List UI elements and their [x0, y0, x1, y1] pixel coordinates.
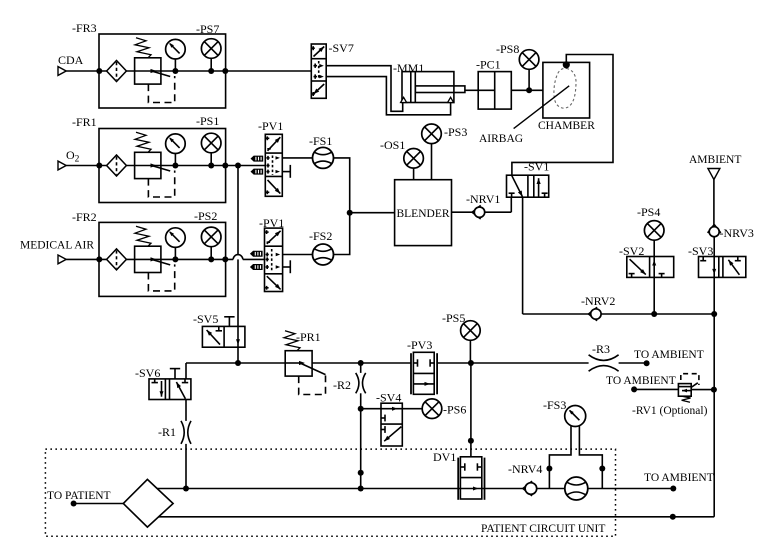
node patient end	[71, 501, 77, 507]
node chamber top port	[563, 61, 570, 68]
label -PR1	[296, 330, 321, 344]
node FR3 gauge tap	[172, 68, 178, 74]
patient flow sensor	[565, 477, 588, 500]
label -PV1 upper	[258, 119, 283, 133]
label -PS5	[442, 311, 465, 325]
label TO AMBIENT lower	[644, 472, 714, 484]
wire SV6 to R1	[185, 400, 187, 421]
wire R3 to ambient	[619, 362, 647, 364]
label -SV7	[329, 41, 354, 55]
wire PV3 out	[437, 362, 471, 364]
pressure switch PS3	[422, 124, 442, 180]
wire FS1 to junction	[334, 158, 350, 255]
label -FS1	[309, 134, 332, 148]
label -PV3	[407, 338, 432, 352]
wire O2 branch down to SV5	[237, 166, 239, 348]
pressure switch PS2	[201, 227, 221, 259]
svg-text:-RV1 (Optional): -RV1 (Optional)	[632, 405, 708, 417]
wire SV4 to PS6	[402, 408, 422, 410]
svg-text:-PS4: -PS4	[637, 205, 660, 219]
label AMBIENT	[689, 154, 741, 166]
wire SV5 down	[237, 347, 239, 363]
node PS2 tap	[208, 256, 214, 262]
wire PC1 to chamber	[511, 89, 543, 91]
node R3 ambient end	[644, 360, 650, 366]
filter-regulator unit FR3 enclosure	[99, 34, 226, 108]
label -PS1	[196, 114, 219, 128]
wire blender outlet	[452, 211, 512, 213]
wire patient stub	[74, 503, 124, 505]
label -NRV2	[581, 294, 615, 308]
filter of FR1	[107, 155, 127, 176]
valve SV3	[699, 257, 746, 278]
svg-text:CHAMBER: CHAMBER	[538, 120, 595, 132]
node FR1 inlet	[96, 163, 102, 169]
valve DV1	[458, 457, 484, 500]
filter of FR3	[107, 61, 127, 82]
wire blender inlet	[350, 212, 395, 214]
svg-text:-FR3: -FR3	[72, 21, 97, 35]
pressure gauge of FR3	[166, 39, 186, 71]
label -SV4	[376, 391, 401, 405]
check valve NRV2	[589, 307, 602, 321]
filter of FR2	[107, 249, 127, 270]
svg-text:-NRV1: -NRV1	[466, 192, 500, 206]
wire FS3 stems	[549, 426, 602, 489]
wire O2 inlet	[66, 165, 106, 167]
wire R2 lower	[360, 393, 362, 488]
node PS1 tap	[208, 163, 214, 169]
valve PV3	[411, 352, 437, 394]
svg-text:-SV4: -SV4	[376, 391, 401, 405]
svg-text:MEDICAL AIR: MEDICAL AIR	[20, 240, 94, 252]
label -PS4	[637, 205, 660, 219]
wire SV1 inlet riser	[510, 197, 512, 212]
node R2 patient junction	[358, 486, 364, 492]
svg-text:-PV1: -PV1	[258, 119, 283, 133]
node PS7 tap	[208, 68, 214, 74]
label -SV2	[619, 244, 644, 258]
label TO AMBIENT mid	[606, 375, 676, 387]
label -PS6	[443, 403, 466, 417]
wire medical-air hop	[233, 255, 243, 260]
pilot PV1l b	[250, 264, 263, 270]
label -R2	[333, 378, 351, 392]
wire R1 to patient line	[185, 444, 187, 489]
label -NRV1	[466, 192, 500, 206]
svg-text:-FS2: -FS2	[309, 229, 332, 243]
label -SV6	[135, 366, 160, 380]
wire RV1 left	[634, 388, 678, 390]
node SV4 junction	[358, 406, 364, 412]
label CDA	[58, 53, 84, 67]
node FR1 outlet	[222, 163, 228, 169]
wire inspiratory line	[157, 488, 673, 490]
pilot PV1u b	[251, 169, 264, 175]
wire PV1l to FS2	[283, 254, 313, 256]
node R2 mid dot	[358, 470, 364, 476]
node SV2 drain junction	[651, 311, 657, 317]
label -NRV3	[720, 226, 754, 240]
label -FR3	[72, 21, 97, 35]
label -FS2	[309, 229, 332, 243]
pressure switch PS6	[422, 399, 442, 419]
label -PV1 lower	[259, 216, 284, 230]
wire R2 upper	[360, 363, 362, 373]
svg-text:-R2: -R2	[333, 378, 351, 392]
label -FR2	[72, 210, 97, 224]
svg-text:-MM1: -MM1	[393, 61, 424, 75]
node RV1 ambient junction	[711, 387, 717, 393]
label -FR1	[72, 115, 97, 129]
svg-text:-PS5: -PS5	[442, 311, 465, 325]
pressure gauge of FR2	[166, 228, 186, 260]
filter-regulator unit FR1 enclosure	[99, 129, 226, 203]
label BLENDER	[396, 208, 449, 220]
ambient triangle	[708, 169, 720, 180]
label AIRBAG	[479, 133, 523, 145]
wire FR3 internal	[126, 70, 311, 72]
inlet port MEDICAL AIR	[58, 255, 66, 264]
node PS8 tap	[526, 87, 532, 93]
node ambient line junction	[711, 311, 717, 317]
label -PS2	[194, 209, 217, 223]
restrictor R1	[181, 421, 191, 444]
wire ambient trunk lower	[713, 390, 715, 517]
flow sensor FS1	[313, 147, 334, 168]
oxygen sensor OS1	[404, 149, 424, 180]
wire FR2 internal	[126, 258, 265, 260]
pressure switch PS4	[644, 221, 664, 257]
inlet port O2	[58, 161, 66, 170]
node RV1 vent end	[631, 386, 637, 392]
svg-text:-PS8: -PS8	[496, 42, 519, 56]
svg-text:-OS1: -OS1	[380, 138, 405, 152]
svg-text:-SV7: -SV7	[329, 41, 354, 55]
svg-text:O2: O2	[66, 148, 80, 165]
wire SV4 feed	[361, 408, 381, 410]
valve SV4	[381, 403, 402, 446]
restrictor R2	[356, 373, 366, 393]
port stub PV1l	[283, 260, 291, 273]
pressure gauge of FR1	[166, 134, 186, 166]
node FS3 left dot	[546, 466, 552, 472]
valve SV5	[202, 317, 245, 347]
svg-text:TO PATIENT: TO PATIENT	[47, 490, 111, 502]
pressure switch PS5	[461, 321, 481, 363]
wire SV6 drop	[185, 363, 187, 379]
check valve NRV1	[472, 205, 485, 219]
wire MEDICAL AIR inlet	[66, 258, 106, 260]
inlet port CDA	[58, 67, 66, 76]
svg-text:-PV3: -PV3	[407, 338, 432, 352]
wire SV7 out B	[326, 77, 450, 115]
label TO AMBIENT upper	[634, 349, 704, 361]
svg-text:-SV1: -SV1	[524, 160, 549, 174]
svg-text:DV1: DV1	[433, 450, 456, 464]
node FR2 gauge tap	[172, 256, 178, 262]
node FR3 outlet	[222, 68, 228, 74]
pressure switch PS8	[519, 50, 539, 91]
svg-text:TO AMBIENT: TO AMBIENT	[634, 349, 704, 361]
label -PS7	[196, 22, 219, 36]
pressure switch PS1	[201, 133, 221, 165]
valve PV1 lower	[265, 228, 283, 291]
svg-text:-NRV2: -NRV2	[581, 294, 615, 308]
svg-text:-SV5: -SV5	[193, 312, 218, 326]
svg-text:-R3: -R3	[592, 342, 610, 356]
label -NRV4	[508, 462, 542, 476]
patient wye diamond	[123, 479, 173, 527]
svg-text:TO AMBIENT: TO AMBIENT	[606, 375, 676, 387]
node DV1 feed dot	[468, 438, 474, 444]
pressure switch PS7	[201, 39, 221, 71]
patient circuit unit boundary	[45, 449, 615, 536]
label -OS1	[380, 138, 405, 152]
wire SV3 down	[713, 277, 715, 314]
wire SV2 down	[653, 277, 655, 314]
pressure regulator of FR3	[135, 38, 175, 103]
svg-text:-SV6: -SV6	[135, 366, 160, 380]
svg-text:-PR1: -PR1	[296, 330, 321, 344]
relief valve RV1	[678, 374, 699, 403]
svg-text:PATIENT CIRCUIT UNIT: PATIENT CIRCUIT UNIT	[481, 523, 605, 535]
wire NRV2 line	[523, 313, 715, 315]
wire ambient trunk down	[713, 314, 715, 390]
svg-text:-FR1: -FR1	[72, 115, 97, 129]
label -RV1 (Optional)	[632, 405, 708, 417]
label -SV1	[524, 160, 549, 174]
svg-text:-PS2: -PS2	[194, 209, 217, 223]
wire chamber loop	[512, 55, 613, 176]
node FR1 gauge tap	[172, 163, 178, 169]
label -R1	[158, 425, 176, 439]
label MEDICAL AIR	[20, 240, 94, 252]
svg-text:-PS3: -PS3	[444, 125, 467, 139]
valve SV1	[507, 175, 549, 197]
svg-text:TO AMBIENT: TO AMBIENT	[644, 472, 714, 484]
check valve NRV3	[708, 225, 721, 237]
node FR2 inlet	[96, 256, 102, 262]
cylinder MM1	[401, 72, 465, 103]
pressure regulator of FR1	[135, 132, 175, 197]
svg-text:-R1: -R1	[158, 425, 176, 439]
T-stub SV6 top	[170, 369, 180, 379]
node FR2 outlet	[222, 256, 228, 262]
wire RV1 right	[691, 389, 714, 391]
node FS3 right dot	[599, 466, 605, 472]
label O2	[66, 148, 80, 165]
svg-text:-NRV4: -NRV4	[508, 462, 542, 476]
chamber CHAMBER	[543, 62, 590, 118]
wire regulated line	[186, 362, 285, 364]
pressure regulator PR1	[284, 331, 326, 395]
label -SV5	[193, 312, 218, 326]
svg-text:CDA: CDA	[58, 53, 84, 67]
label PATIENT CIRCUIT UNIT	[481, 523, 605, 535]
wire to R3	[471, 362, 589, 364]
label DV1	[433, 450, 456, 464]
blender box	[395, 180, 452, 246]
pressure regulator of FR2	[135, 226, 175, 291]
svg-text:-PC1: -PC1	[476, 58, 501, 72]
flow sensor FS2	[313, 244, 334, 265]
node expiratory junction	[670, 514, 676, 520]
node O2 branch	[235, 163, 241, 169]
label -PS3	[444, 125, 467, 139]
port stub PV1u	[282, 165, 290, 178]
pilot PV1u a	[251, 156, 264, 162]
wire PV1u to FS1	[282, 157, 312, 159]
wire MM1 rod to PC1	[465, 89, 478, 91]
wire NRV3 to SV3	[713, 237, 715, 257]
label -MM1	[393, 61, 424, 75]
pilot PV1l a	[250, 251, 263, 257]
svg-text:-PS1: -PS1	[196, 114, 219, 128]
pointer line AIRBAG	[514, 86, 570, 129]
label TO PATIENT	[47, 490, 111, 502]
valve SV6	[149, 379, 191, 400]
wire expiratory line	[158, 516, 714, 518]
filter-regulator unit FR2 enclosure	[99, 222, 226, 296]
wire FR1 internal	[126, 165, 265, 167]
wire PR1 out	[312, 362, 411, 364]
valve SV7	[311, 44, 326, 98]
node SV5 junction	[235, 360, 241, 366]
piston chamber PC1	[478, 72, 511, 110]
wire SV1 outlet down	[522, 197, 524, 314]
label -SV3	[688, 244, 713, 258]
valve PV1 upper	[265, 134, 282, 196]
svg-text:AIRBAG: AIRBAG	[479, 133, 523, 145]
svg-text:-NRV3: -NRV3	[720, 226, 754, 240]
valve SV2	[627, 257, 674, 278]
label -R3	[592, 342, 610, 356]
node FR3 inlet	[96, 68, 102, 74]
svg-text:-FS1: -FS1	[309, 134, 332, 148]
label -PS8	[496, 42, 519, 56]
wire PS5 junction to DV1	[470, 363, 472, 457]
label CHAMBER	[538, 120, 595, 132]
node inspiratory ambient end	[670, 486, 676, 492]
label -FS3	[543, 398, 566, 412]
svg-text:-PS6: -PS6	[443, 403, 466, 417]
node PS5 junction	[468, 360, 474, 366]
restrictor R3	[589, 355, 619, 371]
wire SV7 out A	[326, 66, 403, 112]
wire ambient down	[713, 180, 715, 225]
flow gauge FS3	[565, 406, 586, 427]
node R1 patient junction	[183, 486, 189, 492]
label -PC1	[476, 58, 501, 72]
svg-text:BLENDER: BLENDER	[396, 208, 449, 220]
check valve NRV4	[523, 481, 537, 496]
node blender inlet junction	[347, 210, 353, 216]
svg-text:AMBIENT: AMBIENT	[689, 154, 741, 166]
wire CDA inlet	[66, 70, 106, 72]
svg-text:-FS3: -FS3	[543, 398, 566, 412]
node R2 top junction	[358, 360, 364, 366]
svg-text:-FR2: -FR2	[72, 210, 97, 224]
